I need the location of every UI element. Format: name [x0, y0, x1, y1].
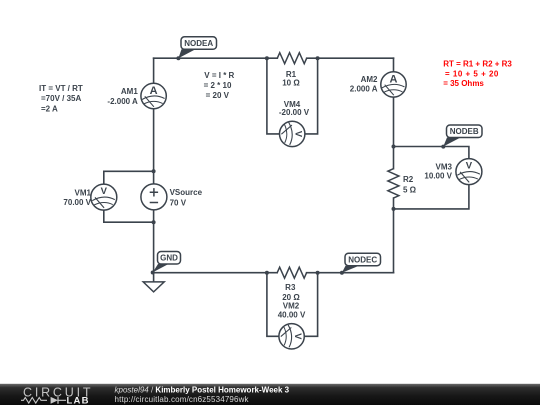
wire VM2 right branch — [304, 273, 317, 337]
svg-text:NODEA: NODEA — [184, 39, 213, 48]
annotation IT formula — [39, 84, 83, 113]
node NODEC — [342, 253, 381, 273]
svg-text:R2: R2 — [403, 175, 414, 184]
wire VM1 bottom branch — [104, 210, 154, 222]
svg-text:VM1: VM1 — [75, 189, 92, 198]
svg-text:=70V / 35A: =70V / 35A — [41, 94, 81, 103]
wire top-left vertical above AM1 — [153, 58, 155, 83]
wire VM2 left branch — [267, 273, 279, 337]
svg-text:= 10 + 5 + 20: = 10 + 5 + 20 — [445, 69, 499, 78]
wire VM3 bottom branch — [394, 185, 469, 209]
svg-text:NODEC: NODEC — [348, 255, 377, 264]
ground — [143, 282, 164, 292]
wire bottom left of R3 — [154, 272, 278, 274]
svg-text:5 Ω: 5 Ω — [403, 185, 417, 194]
svg-text:kpostel94 / Kimberly Postel Ho: kpostel94 / Kimberly Postel Homework-Wee… — [115, 386, 290, 395]
svg-text:LAB: LAB — [67, 396, 90, 405]
wire VM3 top branch — [394, 147, 469, 159]
ammeter AM1 — [141, 83, 166, 108]
svg-text:= 2 * 10: = 2 * 10 — [204, 81, 232, 90]
svg-text:AM1: AM1 — [121, 87, 138, 96]
wire R2 to bottom corner — [393, 198, 395, 273]
resistor R2 — [388, 169, 399, 198]
voltmeter VM4 (rotated) — [280, 121, 305, 146]
svg-text:= 20 V: = 20 V — [206, 91, 230, 100]
wire VM4 left branch — [267, 58, 280, 134]
svg-text:V: V — [292, 131, 303, 138]
svg-text:70 V: 70 V — [170, 198, 187, 207]
svg-text:NODEB: NODEB — [450, 127, 479, 136]
svg-text:-2.000 A: -2.000 A — [107, 97, 138, 106]
logo diode — [51, 397, 58, 404]
node NODEA — [178, 37, 216, 58]
logo resistor — [21, 398, 47, 404]
svg-text:-20.00 V: -20.00 V — [279, 108, 310, 117]
svg-text:VSource: VSource — [170, 188, 203, 197]
svg-text:V: V — [466, 160, 473, 171]
voltage source VSource — [141, 184, 167, 210]
wire top horizontal left of R1 — [154, 57, 278, 59]
voltmeter VM2 (rotated) — [279, 324, 304, 349]
annotation RT formula (red) — [443, 59, 512, 88]
voltmeter VM3 — [456, 159, 482, 185]
svg-text:VM3: VM3 — [436, 163, 453, 172]
svg-text:AM2: AM2 — [361, 75, 378, 84]
svg-text:V: V — [101, 186, 108, 197]
svg-text:RT = R1 + R2 + R3: RT = R1 + R2 + R3 — [443, 59, 512, 68]
wire GND stub — [153, 273, 155, 282]
wire VM4 right branch — [305, 58, 318, 134]
svg-text:A: A — [390, 73, 398, 85]
svg-text:VM2: VM2 — [283, 301, 300, 310]
wire AM2 to R2 — [393, 97, 395, 169]
svg-text:A: A — [150, 85, 158, 97]
wire bottom right of R3 — [307, 272, 394, 274]
voltmeter VM1 — [91, 184, 117, 210]
svg-text:10.00 V: 10.00 V — [424, 172, 452, 181]
svg-text:V: V — [292, 333, 303, 340]
svg-text:=2 A: =2 A — [41, 105, 58, 114]
svg-text:10 Ω: 10 Ω — [282, 79, 300, 88]
svg-text:2.000 A: 2.000 A — [350, 84, 378, 93]
wire top horizontal right of R1 — [307, 57, 394, 59]
svg-text:= 35 Ohms: = 35 Ohms — [443, 79, 484, 88]
wire VM1 top branch — [104, 171, 154, 184]
resistor R3 — [277, 267, 306, 278]
ammeter AM2 — [381, 72, 406, 97]
svg-text:R3: R3 — [285, 283, 296, 292]
svg-text:IT = VT / RT: IT = VT / RT — [39, 84, 83, 93]
svg-text:70.00 V: 70.00 V — [63, 198, 91, 207]
node GND — [153, 252, 181, 273]
footer bar — [0, 384, 540, 405]
svg-text:http://circuitlab.com/cn6z5534: http://circuitlab.com/cn6z5534796wk — [115, 395, 250, 404]
wire VSource to GND junction — [153, 210, 155, 273]
wire AM1 to VSource — [153, 109, 155, 184]
svg-text:40.00 V: 40.00 V — [278, 311, 306, 320]
wire to AM2 top — [393, 58, 395, 71]
svg-text:GND: GND — [160, 254, 178, 263]
node NODEB — [443, 125, 482, 147]
resistor R1 — [277, 53, 306, 64]
annotation V formula — [204, 71, 235, 100]
svg-text:V = I * R: V = I * R — [204, 71, 234, 80]
